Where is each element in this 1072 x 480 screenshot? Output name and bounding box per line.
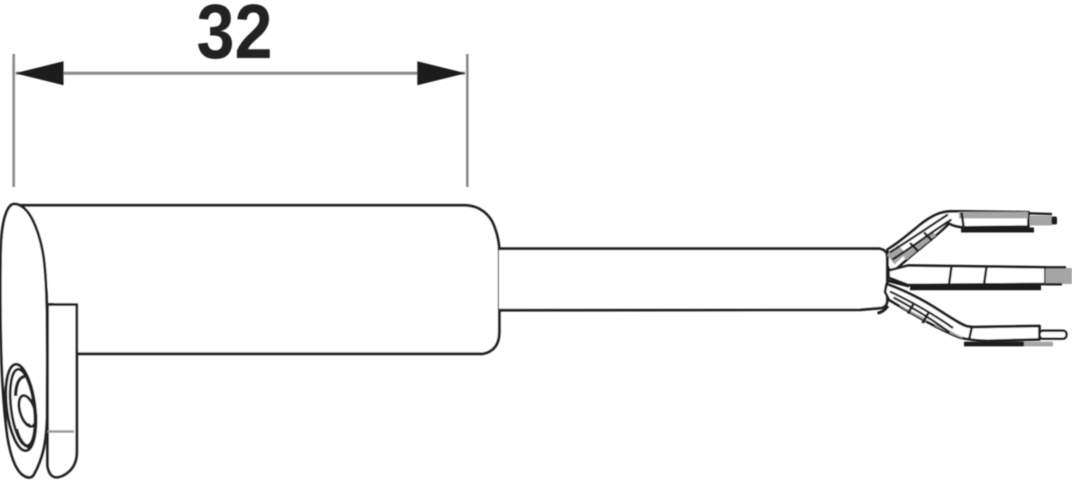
svg-text:32: 32: [197, 0, 273, 75]
